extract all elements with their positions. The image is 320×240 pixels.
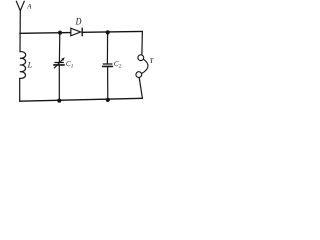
wire C2 branch upper [106,32,108,63]
svg-text:C1: C1 [66,59,74,69]
wire right branch upper [141,31,143,54]
svg-text:A: A [26,3,32,11]
antenna A [16,1,24,11]
wire right branch lower [139,78,142,99]
wire antenna lead down [19,11,21,52]
headphones T bottom terminal [136,72,142,78]
headphones T arc [142,59,148,74]
wire left lower [19,78,21,101]
svg-text:D: D [75,17,82,28]
svg-text:C2: C2 [114,59,122,69]
capacitor C2 plates [103,63,112,65]
svg-text:T: T [150,57,155,65]
wire top rail right segment [82,30,142,33]
capacitor C1 plates [55,62,64,64]
node junction dot C2 bottom [106,98,110,102]
wire C1 branch lower [58,66,60,101]
inductor L [20,52,26,79]
wire C2 branch lower [107,67,109,100]
wire bottom rail [20,98,143,101]
wire C1 branch upper [58,33,60,62]
node junction dot C2 top [106,30,110,34]
headphones T top terminal [138,55,144,61]
svg-text:L: L [27,60,33,69]
diode D [71,28,81,36]
node junction dot C1 bottom [57,99,61,103]
node junction dot C1 top [58,31,62,35]
capacitor C1 arrow [54,59,63,68]
wire top rail left segment [20,32,71,35]
